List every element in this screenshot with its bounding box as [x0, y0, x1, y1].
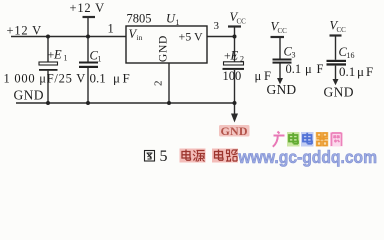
svg-text:0.1: 0.1: [90, 71, 106, 86]
watermark char 器 orange: [316, 132, 329, 147]
wire C3 branch upper: [279, 37, 281, 59]
power terminal Vcc bar E2: [228, 25, 241, 27]
label C3: [284, 45, 296, 60]
node junction dot input-C1: [86, 35, 90, 39]
label C1 value 0.1 uF: [90, 71, 130, 86]
svg-text:2: 2: [153, 81, 165, 87]
svg-text:F: F: [123, 71, 130, 86]
svg-text:E: E: [230, 48, 239, 62]
capacitor C1 plates: [79, 62, 98, 69]
svg-text:1: 1: [98, 55, 102, 64]
ground arrowhead center: [231, 114, 238, 123]
svg-text:3: 3: [214, 20, 220, 32]
wire output pin3: [207, 36, 235, 38]
wire E2 branch upper: [234, 37, 236, 62]
power terminal Vcc bar C16: [330, 34, 342, 36]
svg-text:F: F: [264, 69, 271, 83]
capacitor C16 plates: [327, 60, 347, 66]
label C16 value 0.1 uF: [339, 64, 373, 79]
svg-text:μ: μ: [357, 64, 364, 79]
label E2 value 100 uF: [223, 69, 272, 83]
node Vcc label C3: [271, 20, 288, 36]
caption red char 源: [193, 149, 206, 163]
svg-text:μ: μ: [255, 69, 262, 83]
capacitor E2 plates: [223, 62, 245, 70]
svg-text:F: F: [317, 62, 324, 76]
caption red char 路: [225, 149, 238, 163]
svg-text:CC: CC: [337, 26, 347, 34]
wire E1 branch lower: [47, 71, 49, 103]
node junction dot input-E1: [46, 35, 50, 39]
svg-text:16: 16: [347, 51, 355, 60]
node GND red highlighted label: [219, 124, 250, 138]
wire C3 branch lower: [279, 64, 281, 79]
ground arrowhead C16: [333, 79, 339, 85]
svg-text:GND: GND: [221, 124, 248, 138]
svg-text:www.gc-gddq.com: www.gc-gddq.com: [238, 147, 377, 167]
wire C16 branch upper: [335, 36, 337, 60]
node junction dot rail-C1: [86, 101, 90, 105]
svg-text:CC: CC: [237, 18, 247, 26]
wire Vcc terminal drop E2: [234, 27, 236, 37]
capacitor E1 plates: [39, 62, 58, 71]
watermark char 网 pink: [330, 132, 343, 147]
svg-text:CC: CC: [278, 27, 288, 35]
caption figure glyph 图: [145, 151, 155, 162]
svg-text:1: 1: [64, 54, 68, 63]
svg-text:μ: μ: [305, 62, 312, 76]
svg-text:7805: 7805: [127, 12, 152, 26]
wire main input rail: [11, 36, 126, 38]
node junction dot output-Vcc: [233, 35, 237, 39]
power terminal +12V bar: [83, 16, 96, 18]
label C16: [339, 45, 355, 60]
svg-text:2: 2: [240, 54, 244, 63]
svg-text:+12 V: +12 V: [70, 1, 105, 15]
node junction dot rail-E2: [233, 101, 237, 105]
svg-text:U: U: [166, 12, 176, 26]
wire pin2 drop: [168, 63, 170, 103]
svg-text:0.1: 0.1: [339, 64, 355, 79]
svg-text:+12 V: +12 V: [7, 24, 42, 38]
capacitor C3 plates: [273, 59, 292, 64]
node junction dot rail-E1: [46, 101, 50, 105]
caption red char 电: [180, 149, 193, 163]
ground arrowhead C3: [277, 78, 283, 84]
svg-text:μ: μ: [113, 71, 120, 86]
svg-text:F: F: [366, 64, 373, 79]
svg-text:in: in: [137, 33, 143, 42]
wire C1 branch upper: [87, 37, 89, 62]
svg-text:0.1: 0.1: [286, 62, 302, 76]
wire +12V terminal drop: [87, 17, 89, 37]
wire C16 branch lower: [335, 66, 337, 80]
wire ground rail: [16, 102, 235, 104]
svg-text:GND: GND: [324, 85, 354, 100]
svg-text:GND: GND: [14, 88, 44, 103]
caption red char 电2: [212, 149, 225, 163]
wire E1 branch upper: [47, 37, 49, 63]
wire C1 branch lower: [87, 68, 89, 103]
wire E2 branch lower: [234, 70, 236, 103]
svg-text:1: 1: [176, 18, 180, 27]
svg-text:+5 V: +5 V: [179, 30, 204, 44]
op-amp (regulator) U1 box: [126, 26, 207, 63]
watermark char 广 pink: [273, 132, 285, 147]
label Vin: [129, 27, 143, 42]
label +E1: [48, 48, 68, 63]
label C1: [90, 49, 102, 64]
label C3 value 0.1 uF: [286, 62, 324, 76]
svg-text:1 000 μF/25 V: 1 000 μF/25 V: [4, 72, 87, 86]
svg-text:1: 1: [108, 22, 114, 36]
label U1: [166, 12, 180, 28]
svg-text:GND: GND: [267, 82, 297, 97]
power terminal Vcc bar C3: [271, 36, 285, 38]
watermark char 电 green: [287, 132, 300, 147]
svg-text:GND: GND: [158, 35, 170, 62]
node Vcc label E2: [230, 10, 247, 26]
svg-text:3: 3: [292, 51, 296, 60]
label +E2: [224, 48, 244, 63]
svg-text:5: 5: [160, 148, 168, 165]
wire ground arrow stem: [234, 103, 236, 115]
node junction dot rail-pin2: [167, 101, 171, 105]
node Vcc label C16: [330, 19, 347, 35]
watermark char 电 blue: [301, 132, 314, 147]
svg-text:100: 100: [223, 69, 242, 83]
svg-text:E: E: [53, 48, 62, 62]
